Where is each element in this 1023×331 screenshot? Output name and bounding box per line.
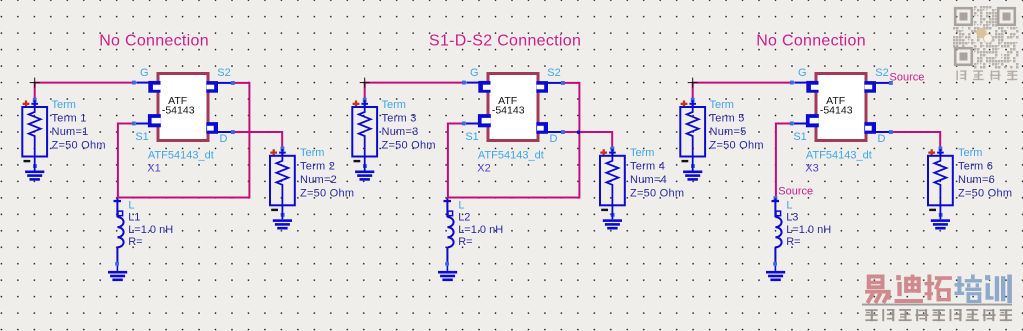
svg-text:Z=50 Ohm: Z=50 Ohm	[630, 187, 684, 199]
svg-text:Term 4: Term 4	[630, 161, 665, 173]
svg-text:Term: Term	[710, 99, 734, 111]
svg-text:Z=50 Ohm: Z=50 Ohm	[958, 187, 1012, 199]
svg-text:Term: Term	[382, 99, 406, 111]
svg-text:Source: Source	[778, 186, 813, 198]
svg-text:X1: X1	[147, 163, 160, 175]
svg-text:Source: Source	[890, 72, 925, 84]
svg-text:R=: R=	[786, 236, 800, 248]
svg-text:X2: X2	[477, 163, 490, 175]
svg-text:Term 2: Term 2	[300, 161, 335, 173]
svg-text:Term 1: Term 1	[52, 113, 87, 125]
svg-text:Term: Term	[630, 147, 654, 159]
svg-text:Num=5: Num=5	[710, 126, 747, 138]
svg-text:Term 3: Term 3	[382, 113, 417, 125]
svg-text:Term: Term	[300, 147, 324, 159]
svg-text:Term 5: Term 5	[710, 113, 745, 125]
svg-text:L: L	[128, 199, 134, 211]
svg-text:S1-D-S2 Connection: S1-D-S2 Connection	[429, 33, 581, 50]
svg-text:L2: L2	[458, 212, 470, 224]
svg-text:No Connection: No Connection	[756, 33, 866, 50]
svg-text:Z=50 Ohm: Z=50 Ohm	[382, 139, 436, 151]
svg-text:L: L	[786, 199, 792, 211]
svg-text:Term 6: Term 6	[958, 161, 993, 173]
svg-text:Num=1: Num=1	[52, 126, 89, 138]
svg-text:Num=6: Num=6	[958, 174, 995, 186]
svg-text:Term: Term	[52, 99, 76, 111]
svg-text:R=: R=	[458, 236, 472, 248]
svg-text:L3: L3	[786, 212, 798, 224]
svg-text:Z=50 Ohm: Z=50 Ohm	[52, 139, 106, 151]
svg-text:Z=50 Ohm: Z=50 Ohm	[710, 139, 764, 151]
svg-text:L: L	[458, 199, 464, 211]
svg-text:No Connection: No Connection	[99, 33, 209, 50]
svg-text:R=: R=	[128, 236, 142, 248]
svg-text:L=1.0 nH: L=1.0 nH	[128, 224, 173, 236]
svg-text:L=1.0 nH: L=1.0 nH	[458, 224, 503, 236]
svg-text:Num=2: Num=2	[300, 174, 337, 186]
svg-text:L1: L1	[128, 212, 140, 224]
svg-text:Num=4: Num=4	[630, 174, 667, 186]
svg-text:X3: X3	[805, 163, 818, 175]
svg-text:Num=3: Num=3	[382, 126, 419, 138]
svg-text:Z=50 Ohm: Z=50 Ohm	[300, 187, 354, 199]
svg-text:Term: Term	[958, 147, 982, 159]
svg-text:L=1.0 nH: L=1.0 nH	[786, 224, 831, 236]
